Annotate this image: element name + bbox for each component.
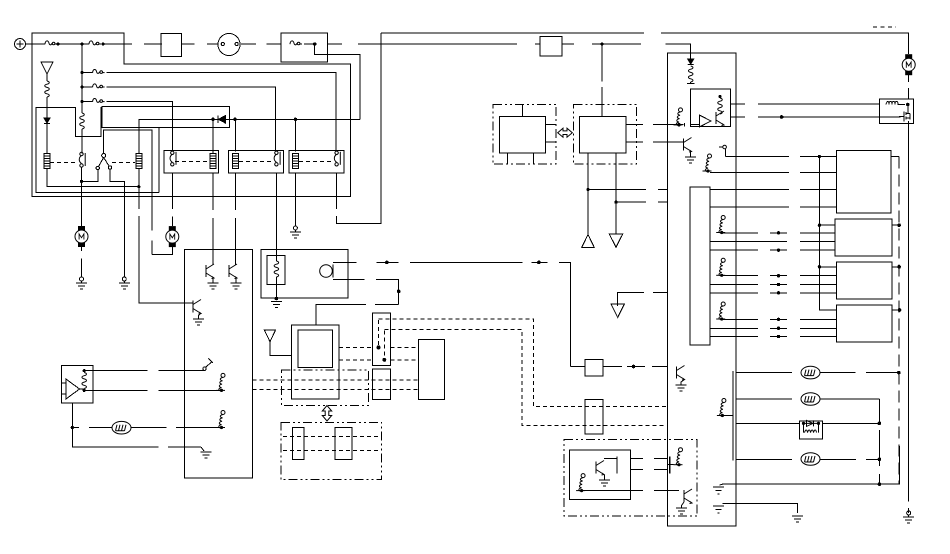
ignition switch circle xyxy=(218,34,240,56)
wires to mosfet box xyxy=(731,103,880,105)
dashdot box lower xyxy=(281,422,382,479)
transistor Q5 xyxy=(684,489,692,504)
node dot on y119.3 xyxy=(294,118,297,121)
sensor S4 xyxy=(716,302,725,321)
wire row1 into logic box xyxy=(669,123,700,127)
pullup PS1 xyxy=(216,373,225,392)
inner logic box xyxy=(691,89,731,127)
opamp triangle xyxy=(66,379,80,399)
bus vertical xyxy=(819,157,836,310)
wire to Q5 xyxy=(582,490,679,492)
wire top bus y33 xyxy=(381,33,909,54)
wire boxA left to motor U xyxy=(171,173,173,226)
wire b4-4 xyxy=(710,336,837,338)
ground G3 xyxy=(290,226,301,238)
connector triangle T2 xyxy=(264,330,275,342)
node dot xyxy=(56,42,59,45)
wire b4-2 xyxy=(722,318,837,320)
wire inside box down and right xyxy=(315,44,360,119)
connector triangle T1 xyxy=(41,62,53,74)
wire frame outer xyxy=(32,33,350,197)
sensor S5 xyxy=(674,448,683,467)
wire box bottom hanger xyxy=(158,128,160,193)
inner box xyxy=(570,450,631,499)
box3 xyxy=(837,262,892,299)
wire xyxy=(182,43,218,45)
lamp L2 wire xyxy=(736,398,792,400)
wire xyxy=(46,97,48,118)
fusible link box xyxy=(281,33,328,62)
wire x602 down xyxy=(601,44,603,116)
relay box C xyxy=(289,150,344,173)
ECU box left xyxy=(185,250,253,478)
wire b2-1 stub xyxy=(819,224,835,226)
wire b1-2 xyxy=(710,172,836,174)
ground wire row2 xyxy=(713,506,724,513)
dashdot box mid xyxy=(281,370,368,405)
coil box xyxy=(267,255,285,284)
wire MB1 top stub xyxy=(522,104,524,116)
wire boxA coil drop xyxy=(212,119,214,153)
wire relay2 line down to Q3 xyxy=(139,187,193,303)
fuse F1 xyxy=(45,41,57,45)
wire boxB left down xyxy=(235,173,237,265)
mosfet box xyxy=(879,99,913,124)
tall inner box xyxy=(690,187,710,345)
transistor Q1 xyxy=(206,264,214,279)
wire b1-3 xyxy=(710,189,836,191)
wire b4-3 xyxy=(710,327,837,329)
wire b1-1 xyxy=(725,156,836,158)
dashdot box MB2 xyxy=(573,104,636,164)
transistor Q3 xyxy=(193,300,201,315)
resistor sensor RS xyxy=(717,399,726,418)
sensor S2 xyxy=(716,216,725,235)
EFI relay box xyxy=(261,250,348,299)
connector square xyxy=(585,360,603,376)
ground G5 inside ECU xyxy=(201,447,204,451)
vertical x82 with resistor xyxy=(81,44,83,113)
white box right xyxy=(419,339,445,399)
ECU box right xyxy=(668,53,736,526)
wire xyxy=(46,74,48,81)
fuse F2 xyxy=(89,41,101,45)
wire y119.3 feed line xyxy=(139,119,360,153)
dashed link RL1 xyxy=(50,162,78,164)
connector triangle down 2 xyxy=(618,292,668,306)
wire xyxy=(58,43,89,45)
wire switch contacts to bottom xyxy=(82,169,125,277)
wire fuse row y101.6 xyxy=(82,101,93,103)
wire from wireA down to ECU xyxy=(571,366,586,368)
ground G4 xyxy=(275,297,279,301)
dashed wire xyxy=(908,74,910,99)
wire boxC left down xyxy=(294,173,296,226)
wire b3-3 xyxy=(710,284,837,286)
wire b3-4 xyxy=(710,292,837,294)
buffer triangle xyxy=(699,115,711,127)
fuse F3 inside box xyxy=(290,41,302,45)
dashed harness w3 xyxy=(339,346,418,348)
wire cup line xyxy=(72,427,112,429)
wire sensor box down xyxy=(71,403,73,427)
sensor S3 xyxy=(716,258,725,277)
sensor box xyxy=(62,366,94,403)
wire MB2 legs xyxy=(587,153,589,234)
coil winding xyxy=(274,261,279,277)
wire boxA coil down xyxy=(212,173,214,265)
dashed vertical x899 xyxy=(898,157,900,485)
wire xyxy=(328,43,381,45)
wire boxC left drop xyxy=(294,119,296,151)
resistor R1 xyxy=(45,81,50,97)
node dot xyxy=(101,42,104,45)
node dot x602 xyxy=(600,42,603,45)
buzzer circle xyxy=(320,265,333,278)
diode D1 xyxy=(44,118,50,124)
wire boxB left drop xyxy=(235,119,237,151)
ground G1 xyxy=(76,277,87,289)
wire MB1 legs xyxy=(508,153,534,164)
wire b2-3 xyxy=(710,240,835,242)
wire coil bottom xyxy=(47,169,139,187)
diode D3 xyxy=(688,59,694,65)
wire RL1 contact bottom to motor xyxy=(81,181,83,226)
center box inner xyxy=(298,330,333,368)
mosfet xyxy=(899,105,910,122)
tall connector box xyxy=(372,313,390,365)
wire MB2 to ECU row1 xyxy=(626,124,669,126)
wire fuse row y72.6 xyxy=(82,72,93,74)
switch SW2 xyxy=(719,146,723,148)
sensor S1 xyxy=(703,154,712,173)
wire A from buzzer xyxy=(333,261,357,263)
switch S inside ECU xyxy=(203,367,206,370)
wire b2-4 xyxy=(710,249,835,251)
connector triangle down xyxy=(609,234,622,247)
wire b2-2 xyxy=(722,232,835,234)
wire b1-4 xyxy=(710,206,836,208)
wire xyxy=(46,124,48,154)
wire sensor line2 xyxy=(84,389,219,391)
transistor Q7 xyxy=(684,138,692,153)
sensor S0 xyxy=(674,108,683,127)
dashed harness w2 xyxy=(253,389,419,391)
relay box A xyxy=(164,150,218,173)
dashed overroute w4 xyxy=(384,330,666,426)
motor U xyxy=(166,226,179,247)
center box outer xyxy=(292,325,340,399)
relay RL2 coil xyxy=(136,154,142,169)
box4 xyxy=(837,305,892,342)
connector triangle up xyxy=(582,235,594,248)
wire MB2 to ECU row2 xyxy=(626,141,684,143)
square component K2 xyxy=(540,37,562,57)
diode D2 inside xyxy=(211,118,214,121)
relay RL1 coil xyxy=(44,154,50,169)
square component K1 xyxy=(161,34,182,57)
diode resistor box wire xyxy=(736,422,800,424)
wire B from buzzer xyxy=(316,279,399,325)
fan motor xyxy=(902,54,915,75)
ground G2 xyxy=(119,277,130,289)
resistor R2 xyxy=(82,373,87,389)
motor N xyxy=(75,226,88,247)
dashed jumpers inside xyxy=(378,320,380,347)
wire xyxy=(241,43,281,45)
solid box MB1 xyxy=(499,116,545,153)
wire boxC coil down loop to top bus xyxy=(336,33,381,224)
wire fuse row y87 xyxy=(82,86,93,88)
dashed overroute w3 xyxy=(379,319,667,407)
resistor R5 xyxy=(886,102,905,105)
diode box xyxy=(102,107,230,128)
arrow link xyxy=(558,128,573,137)
wire boxB coil down to EFI xyxy=(275,173,277,255)
transistor Q6 xyxy=(718,98,723,114)
lamp L4 wire xyxy=(736,458,792,460)
dashdot box bottom xyxy=(564,439,697,516)
wire xyxy=(103,43,162,45)
solid box MB2 xyxy=(580,116,626,153)
dashed harness w4 xyxy=(339,359,418,361)
dashed link SW to RL2 xyxy=(112,162,135,164)
wire b3-1 stub xyxy=(819,266,836,268)
transistor Q4 xyxy=(596,461,604,476)
resistor R3 xyxy=(576,474,585,493)
lamp L1 wire xyxy=(736,372,792,374)
wire down to ground xyxy=(908,125,910,514)
transistor Q8 xyxy=(677,366,685,381)
connector rect 2 xyxy=(335,427,352,459)
resistor R4 xyxy=(688,66,693,82)
connector rect lower xyxy=(585,399,603,434)
wire frame inner xyxy=(36,107,159,193)
connector rect 1 xyxy=(292,427,304,459)
wire MB1 right stubs xyxy=(546,125,557,143)
dashed wires lower xyxy=(283,436,379,438)
wire ground line xyxy=(72,428,201,448)
wire b3-2 xyxy=(722,275,837,277)
lower connector box xyxy=(372,369,390,400)
wire bus y44 xyxy=(381,44,691,59)
updown arrow xyxy=(322,406,331,422)
ground wire row1 xyxy=(720,483,723,486)
wire switch top loop xyxy=(104,130,152,231)
wire battery to fuse xyxy=(26,43,46,45)
box1 xyxy=(836,150,891,213)
dashdot box MB1 xyxy=(493,104,556,164)
wire sensor line1 xyxy=(84,370,203,372)
dashed harness w1 xyxy=(253,379,419,381)
speed cup xyxy=(112,421,131,434)
box2 xyxy=(835,219,892,256)
pullup PS2 xyxy=(216,411,225,430)
wires out right xyxy=(630,458,667,460)
bracket xyxy=(733,371,736,461)
relay box B xyxy=(228,150,283,173)
transistor Q2 xyxy=(229,264,237,279)
relay RL1 contact xyxy=(79,152,85,167)
dash marks top right xyxy=(873,26,896,28)
switch SW1 xyxy=(102,154,106,158)
battery B+ xyxy=(15,39,26,50)
node x82 xyxy=(80,42,83,45)
